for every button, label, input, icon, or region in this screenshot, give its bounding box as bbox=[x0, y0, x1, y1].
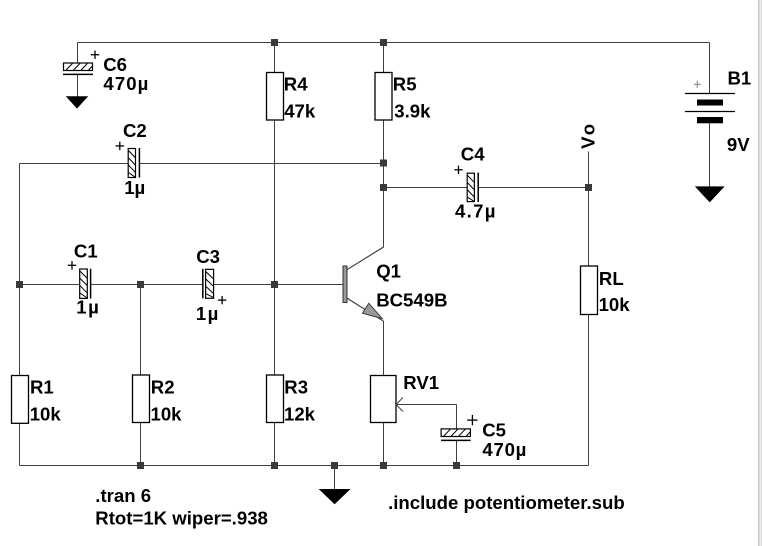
wire ground stub bottom bbox=[334, 466, 336, 490]
svg-text:R1: R1 bbox=[30, 376, 54, 397]
svg-text:C2: C2 bbox=[123, 120, 147, 141]
svg-text:C4: C4 bbox=[461, 144, 485, 165]
label C3 bbox=[196, 246, 220, 324]
node dot base divider bbox=[271, 281, 278, 288]
wire base net 2 bbox=[91, 284, 203, 286]
label C5 bbox=[482, 420, 526, 460]
wire B1 top bbox=[709, 43, 711, 94]
node dot rail ground bbox=[331, 462, 338, 469]
label C1 bbox=[74, 241, 99, 318]
ground bottom center bbox=[320, 490, 349, 504]
svg-text:BC549B: BC549B bbox=[376, 289, 447, 310]
wire C5 top bbox=[456, 405, 458, 429]
wire left rail bbox=[19, 164, 21, 376]
plus C5 bbox=[467, 415, 477, 425]
wire C6 to ground bbox=[77, 74, 79, 96]
svg-text:470µ: 470µ bbox=[482, 439, 526, 460]
node dot rail R2 bbox=[137, 462, 144, 469]
window border right bbox=[758, 0, 762, 546]
capacitor C5 bbox=[441, 429, 471, 441]
node dot collector C4 bbox=[380, 184, 387, 191]
ground for B1 bbox=[696, 187, 724, 202]
label R3 bbox=[284, 376, 316, 424]
svg-text:B1: B1 bbox=[728, 68, 752, 89]
wire RV1 bottom bbox=[383, 423, 385, 466]
node dot rail C5 bbox=[453, 462, 460, 469]
plus C2 bbox=[116, 142, 124, 150]
svg-text:Q1: Q1 bbox=[376, 261, 401, 282]
svg-text:Rtot=1K wiper=.938: Rtot=1K wiper=.938 bbox=[95, 508, 268, 529]
label C2 bbox=[123, 120, 147, 198]
wire wiper to C5 bbox=[396, 404, 457, 406]
wire base net 1 bbox=[20, 284, 80, 286]
capacitor C1 bbox=[80, 269, 91, 299]
wire R2 top bbox=[140, 285, 142, 376]
svg-text:R3: R3 bbox=[284, 376, 308, 397]
svg-text:47k: 47k bbox=[284, 101, 316, 122]
svg-text:470µ: 470µ bbox=[103, 73, 148, 94]
node dot rail RV1 bbox=[380, 462, 387, 469]
node dot top R5 bbox=[380, 39, 387, 46]
wire RL bottom bbox=[588, 315, 590, 466]
node dot base left rail bbox=[16, 281, 23, 288]
label R2 bbox=[151, 376, 183, 424]
plus C1 bbox=[68, 261, 76, 269]
label R1 bbox=[30, 376, 62, 424]
svg-text:C3: C3 bbox=[196, 246, 220, 267]
wire emitter to RV1 bbox=[383, 321, 385, 376]
wire C4 net left bbox=[384, 187, 468, 189]
svg-text:R2: R2 bbox=[151, 376, 175, 397]
resistor R2 bbox=[133, 375, 150, 423]
ground for C6 bbox=[67, 97, 87, 108]
svg-text:.include potentiometer.sub: .include potentiometer.sub bbox=[388, 492, 625, 513]
node dot base R2 bbox=[137, 281, 144, 288]
svg-text:10k: 10k bbox=[30, 404, 62, 425]
svg-text:1µ: 1µ bbox=[196, 303, 219, 324]
svg-text:.tran 6: .tran 6 bbox=[95, 485, 151, 506]
resistor RL bbox=[581, 266, 598, 315]
svg-text:C6: C6 bbox=[103, 54, 127, 75]
wire C4 net right bbox=[478, 187, 588, 189]
wire R4 to R3 bbox=[274, 120, 276, 375]
label R4 bbox=[284, 74, 316, 122]
label R5 bbox=[393, 74, 431, 122]
svg-text:RV1: RV1 bbox=[403, 372, 439, 393]
svg-text:10k: 10k bbox=[599, 294, 631, 315]
svg-text:4.7µ: 4.7µ bbox=[455, 200, 496, 221]
svg-text:1µ: 1µ bbox=[76, 297, 99, 318]
svg-text:3.9k: 3.9k bbox=[394, 101, 431, 122]
plus C6 bbox=[91, 51, 99, 59]
plus C3 bbox=[218, 296, 226, 304]
node dot collector C2 bbox=[380, 160, 387, 167]
wire C6 drop top bbox=[77, 43, 79, 64]
capacitor C3 bbox=[203, 269, 214, 299]
potentiometer RV1 bbox=[371, 376, 404, 423]
label RL bbox=[599, 268, 631, 315]
battery B1 bbox=[685, 94, 735, 124]
svg-text:C1: C1 bbox=[74, 241, 98, 262]
svg-text:1µ: 1µ bbox=[124, 177, 145, 198]
svg-text:C5: C5 bbox=[482, 420, 506, 441]
transistor Q1 bbox=[343, 247, 384, 321]
wire C5 bottom bbox=[456, 440, 458, 465]
wire R2 bottom bbox=[140, 423, 142, 466]
capacitor C2 bbox=[128, 148, 139, 178]
plus B1 bbox=[694, 81, 701, 88]
svg-text:10k: 10k bbox=[151, 404, 183, 425]
wire B1 to ground bbox=[709, 123, 711, 187]
resistor R1 bbox=[12, 376, 29, 424]
label C4 bbox=[455, 144, 496, 222]
svg-text:12k: 12k bbox=[284, 404, 316, 425]
label Q1 bbox=[376, 261, 447, 311]
wire R5 to collector bbox=[383, 120, 385, 247]
wire bottom rail bbox=[20, 465, 589, 467]
svg-text:R5: R5 bbox=[393, 74, 417, 95]
svg-text:R4: R4 bbox=[284, 74, 308, 95]
wire R3 bottom bbox=[274, 423, 276, 466]
wire C2 net right bbox=[139, 163, 383, 165]
capacitor C6 bbox=[63, 63, 93, 74]
wire C2 net left bbox=[20, 163, 129, 165]
capacitor C4 bbox=[467, 173, 478, 202]
resistor R5 bbox=[375, 73, 392, 121]
plus C4 bbox=[454, 166, 462, 174]
resistor R4 bbox=[267, 73, 284, 121]
wire base net 3 bbox=[214, 284, 343, 286]
label B1 bbox=[727, 68, 751, 155]
wire R5 top bbox=[383, 43, 385, 73]
svg-text:RL: RL bbox=[599, 268, 624, 289]
wire Vo drop bbox=[588, 152, 590, 267]
node dot Vo RL bbox=[585, 184, 592, 191]
label C6 bbox=[103, 54, 148, 94]
wire top rail bbox=[78, 42, 710, 44]
svg-text:Vo: Vo bbox=[577, 124, 598, 149]
resistor R3 bbox=[267, 375, 284, 423]
svg-text:9V: 9V bbox=[727, 134, 750, 155]
node dot rail R3 bbox=[271, 462, 278, 469]
wire R1 bottom bbox=[19, 423, 21, 465]
node dot top R4 bbox=[271, 39, 278, 46]
wire R4 top bbox=[274, 43, 276, 73]
